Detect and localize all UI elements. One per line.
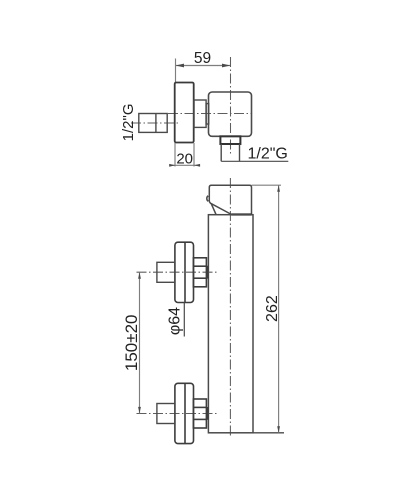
square body (top view): [209, 92, 252, 136]
outlet pipe below body: [221, 144, 239, 161]
lower bracket pipe: [157, 404, 175, 424]
bar body: [208, 215, 253, 433]
dimension 150±20 line with arrows: [138, 272, 141, 413]
dimension 20 line with outside arrows: [169, 164, 200, 167]
svg-text:262: 262: [264, 295, 281, 322]
dimension 262 line with arrows: [277, 185, 280, 433]
upper bracket center line: [137, 271, 219, 273]
leader underline for outlet label: [221, 160, 288, 162]
dimension 59 text: [194, 50, 211, 67]
horizontal center line of inlet pipe: [131, 122, 179, 124]
dimension 59 line with arrows: [176, 64, 231, 68]
phi64 leader line: [183, 303, 185, 337]
upper bracket flange: [175, 242, 194, 302]
label 1/2"G (outlet): [248, 146, 288, 163]
horizontal center line of square body: [168, 113, 252, 115]
rotated label 1/2"G (inlet): [120, 103, 137, 141]
svg-text:150±20: 150±20: [122, 314, 141, 371]
dimension 150±20 text: [122, 314, 141, 371]
outlet flange below body: [220, 136, 240, 144]
svg-text:59: 59: [194, 50, 211, 67]
svg-text:1/2"G: 1/2"G: [248, 146, 288, 163]
dimension 20 text: [176, 151, 193, 168]
extension line left of 59 dim: [175, 59, 177, 83]
wall plate (top view): [175, 83, 194, 143]
bottom extension of bar to dim line: [253, 432, 284, 434]
top extension line for 262: [252, 184, 282, 186]
lower bracket flange: [175, 383, 194, 443]
upper bracket pipe: [157, 262, 175, 282]
svg-text:20: 20: [176, 151, 193, 168]
head bottom thick edge: [231, 213, 251, 215]
head (top elbow): [207, 185, 252, 214]
lower bracket nut: [193, 399, 207, 428]
inlet pipe (top view): [139, 114, 167, 133]
svg-text:φ64: φ64: [167, 307, 184, 335]
dimension 20 extension lines: [175, 143, 194, 167]
phi64 text: [167, 307, 184, 335]
svg-text:1/2"G: 1/2"G: [120, 103, 137, 141]
bar center line: [229, 178, 231, 438]
lower bracket center line: [137, 413, 219, 415]
vertical center line of square body: [230, 57, 232, 155]
dimension 262 text: [264, 295, 281, 322]
upper bracket nut: [193, 258, 207, 287]
connector between plate and body: [194, 100, 209, 127]
